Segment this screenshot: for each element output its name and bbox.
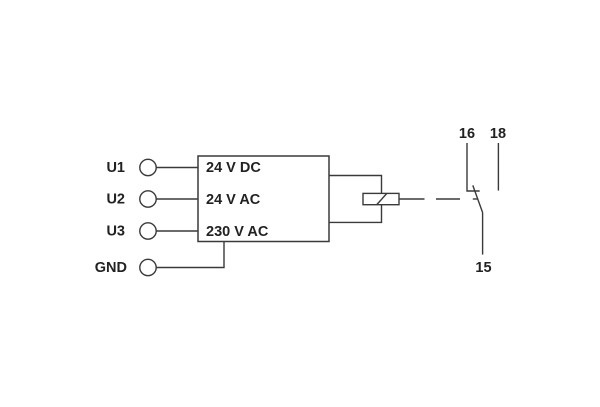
- svg-text:24 V AC: 24 V AC: [206, 192, 261, 208]
- svg-text:GND: GND: [95, 260, 127, 276]
- relay coil K1: [363, 193, 399, 204]
- terminal circle U2: [140, 191, 156, 207]
- wire box top to coil: [329, 176, 382, 194]
- svg-text:U2: U2: [106, 191, 125, 207]
- wire coil output: [399, 198, 425, 200]
- terminal circle GND: [140, 259, 156, 275]
- terminal circle U3: [140, 223, 156, 239]
- changeover contact blade: [473, 185, 483, 212]
- terminal 18 lead: [497, 143, 499, 191]
- wire U2 to box: [156, 198, 198, 200]
- wire blade to terminal 15: [482, 213, 484, 255]
- wire U3 to box: [156, 230, 198, 232]
- svg-text:24 V DC: 24 V DC: [206, 160, 261, 176]
- dashed actuation line: [436, 198, 478, 200]
- terminal circle U1: [140, 159, 156, 175]
- wire box bottom to coil: [329, 205, 382, 223]
- svg-text:U1: U1: [106, 160, 125, 176]
- wire U1 to box: [156, 167, 198, 169]
- svg-text:15: 15: [475, 260, 491, 276]
- svg-text:18: 18: [490, 126, 506, 142]
- power supply box: [198, 156, 329, 242]
- svg-text:230 V AC: 230 V AC: [206, 224, 269, 240]
- terminal 16 lead: [467, 143, 480, 191]
- svg-text:U3: U3: [106, 223, 125, 239]
- svg-text:16: 16: [459, 126, 475, 142]
- wire GND to box bottom: [156, 242, 224, 268]
